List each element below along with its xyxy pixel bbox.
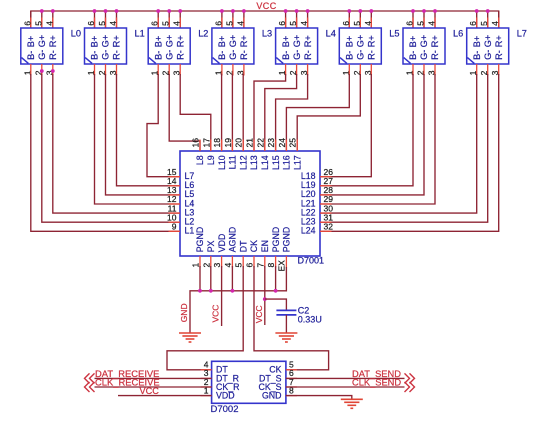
svg-text:L24: L24: [301, 226, 316, 236]
svg-text:R+: R+: [494, 35, 504, 47]
svg-text:22: 22: [255, 138, 265, 148]
connector L6 bottom pin stubs: [412, 64, 414, 76]
svg-text:G-: G-: [228, 50, 238, 60]
svg-text:R+: R+: [48, 35, 58, 47]
connector L7: [467, 28, 509, 64]
svg-text:R-: R-: [112, 50, 122, 60]
svg-text:PGND: PGND: [282, 227, 292, 252]
svg-text:B+: B+: [90, 36, 100, 48]
svg-text:B-: B-: [472, 51, 482, 60]
svg-text:B-: B-: [217, 51, 227, 60]
svg-text:G-: G-: [292, 50, 302, 60]
connector L2: [148, 28, 190, 64]
svg-text:5: 5: [479, 21, 489, 26]
svg-text:G+: G+: [292, 35, 302, 48]
off-sheet connector CLK_RECEIVE chevron: [85, 382, 95, 392]
svg-text:R+: R+: [175, 35, 185, 47]
svg-text:4: 4: [490, 21, 500, 26]
wire L7 pin2 to U1 pin31: [320, 74, 488, 222]
wire U2 pin6 to DAT_SEND: [286, 377, 405, 379]
svg-text:L1: L1: [135, 29, 145, 39]
wires U1 pins 1,2,4,8 to ground bus: [199, 266, 201, 291]
svg-text:L10: L10: [217, 155, 227, 170]
svg-text:3: 3: [212, 263, 222, 268]
svg-text:VDD: VDD: [217, 234, 227, 253]
U1 bottom pin stubs 1-8,EX: [199, 256, 201, 268]
svg-text:B-: B-: [26, 51, 36, 60]
svg-text:R-: R-: [239, 50, 249, 60]
op IC U1 D7001 body: [180, 151, 320, 256]
junction dots on VCC rail: [40, 9, 44, 13]
svg-text:R+: R+: [239, 35, 249, 47]
svg-text:CLK_SEND: CLK_SEND: [352, 377, 401, 387]
svg-text:32: 32: [324, 222, 334, 232]
svg-text:L0: L0: [71, 29, 81, 39]
svg-text:18: 18: [212, 138, 222, 148]
svg-text:L1: L1: [185, 226, 195, 236]
svg-text:EX: EX: [276, 260, 286, 272]
wire L6 pin1 to U1 pin27: [320, 74, 413, 186]
wire VCC tee to capacitor C2: [265, 299, 287, 310]
svg-text:CK: CK: [249, 240, 259, 252]
connector L0: [21, 28, 63, 64]
wires connector VCC pins to rail: [30, 11, 32, 28]
svg-text:G+: G+: [419, 35, 429, 48]
svg-text:5: 5: [234, 263, 244, 268]
ground symbol under C2: [275, 332, 297, 334]
U2 left pin stubs 1-4: [201, 369, 212, 371]
connector L5 bottom pin stubs: [348, 64, 350, 76]
wire L4 pin1 to U1 pin21: [254, 74, 286, 151]
power rail VCC: [31, 11, 499, 28]
off-sheet connector DAT_SEND chevron: [405, 373, 415, 383]
svg-text:VCC: VCC: [256, 1, 276, 11]
capacitor C2: [276, 309, 296, 311]
U2 right pin stubs 5-8: [286, 369, 297, 371]
wire U1 pin6 CK to U2 pin5: [254, 266, 329, 370]
wire L3 pin2 to U1 pin19: [231, 74, 233, 151]
svg-text:5: 5: [161, 21, 171, 26]
svg-text:R+: R+: [112, 35, 122, 47]
wire L7 pin3 to U1 pin32: [320, 74, 499, 231]
svg-text:B-: B-: [153, 51, 163, 60]
wire VCC to U2 pin1: [118, 395, 212, 397]
ground symbol under U1: [179, 332, 201, 334]
svg-text:EN: EN: [260, 240, 270, 252]
svg-text:4: 4: [108, 21, 118, 26]
svg-text:5: 5: [33, 21, 43, 26]
wire L5 pin3 to U1 pin26: [320, 74, 371, 177]
svg-text:D7001: D7001: [298, 255, 325, 265]
wire L2 pin1 to U1 pin15: [147, 74, 180, 177]
wire CLK_RECEIVE to U2 pin2: [95, 386, 212, 388]
wire U2 pin8 GND to ground: [286, 396, 352, 400]
svg-text:PGND: PGND: [195, 227, 205, 252]
wire L0 pin1 to U1 pin9: [31, 74, 180, 231]
svg-text:G-: G-: [419, 50, 429, 60]
svg-text:L13: L13: [249, 155, 259, 170]
wire L5 pin2 to U1 pin25: [297, 74, 360, 151]
svg-text:L16: L16: [282, 155, 292, 170]
svg-text:R-: R-: [367, 50, 377, 60]
svg-text:G+: G+: [164, 35, 174, 48]
svg-text:6: 6: [86, 21, 96, 26]
svg-text:19: 19: [223, 138, 233, 148]
svg-text:4: 4: [223, 263, 233, 268]
svg-text:G-: G-: [356, 50, 366, 60]
U1 left pin stubs 9-15: [169, 176, 181, 178]
svg-text:17: 17: [201, 138, 211, 148]
connector L3 bottom pin stubs: [221, 64, 223, 76]
svg-text:6: 6: [468, 21, 478, 26]
svg-text:16: 16: [191, 138, 201, 148]
svg-text:B+: B+: [153, 36, 163, 48]
wire U2 pin7 to CLK_SEND: [286, 386, 405, 388]
wire L3 pin1 to U1 pin18: [221, 74, 223, 151]
wire L7 pin1 to U1 pin30: [320, 74, 477, 213]
connector L2 bottom pin stubs: [157, 64, 159, 76]
svg-text:L7: L7: [517, 29, 527, 39]
IC U2 D7002 body: [212, 361, 286, 403]
svg-text:R-: R-: [175, 50, 185, 60]
junction dots on ground bus: [198, 289, 202, 293]
junction dot VCC/C2 tee: [263, 297, 267, 301]
connector L1: [85, 28, 127, 64]
svg-text:6: 6: [405, 21, 415, 26]
svg-text:VCC: VCC: [211, 305, 221, 323]
svg-text:VDD: VDD: [216, 391, 235, 401]
svg-text:6: 6: [245, 263, 255, 268]
svg-text:4: 4: [44, 21, 54, 26]
U1 right pin stubs 26-32: [320, 176, 332, 178]
svg-text:G+: G+: [101, 35, 111, 48]
svg-text:B+: B+: [217, 36, 227, 48]
wire L4 pin2 to U1 pin22: [265, 74, 297, 151]
svg-text:R-: R-: [303, 50, 313, 60]
wire L6 pin2 to U1 pin28: [320, 74, 424, 195]
svg-text:5: 5: [224, 21, 234, 26]
svg-text:G-: G-: [101, 50, 111, 60]
ground symbol under U2 pin8: [341, 398, 363, 400]
svg-text:6: 6: [150, 21, 160, 26]
svg-text:R+: R+: [303, 35, 313, 47]
svg-text:L2: L2: [198, 29, 208, 39]
svg-text:L3: L3: [262, 29, 272, 39]
svg-text:D7002: D7002: [211, 404, 239, 415]
junction dots below connector L0: [40, 69, 44, 73]
svg-text:VCC: VCC: [140, 386, 160, 396]
svg-text:4: 4: [363, 21, 373, 26]
off-sheet connector DAT_RECEIVE chevron: [85, 373, 95, 383]
wire L1 pin2 to U1 pin13: [106, 74, 181, 195]
svg-text:5: 5: [352, 21, 362, 26]
svg-text:4: 4: [235, 21, 245, 26]
wire L1 pin3 to U1 pin14: [117, 74, 181, 186]
connector L7 bottom pin stubs: [476, 64, 478, 76]
wire L2 pin2 to U1 pin16: [169, 74, 200, 151]
svg-text:21: 21: [245, 138, 255, 148]
svg-text:5: 5: [97, 21, 107, 26]
svg-text:B-: B-: [281, 51, 291, 60]
wire U1 pin7 EN to VCC: [264, 266, 266, 325]
svg-text:23: 23: [266, 138, 276, 148]
svg-text:B+: B+: [408, 36, 418, 48]
svg-text:L8: L8: [195, 155, 205, 165]
svg-text:DT: DT: [238, 240, 248, 252]
wire ground bus under U1: [190, 267, 286, 333]
svg-text:L14: L14: [260, 155, 270, 170]
svg-text:6: 6: [277, 21, 287, 26]
svg-text:L9: L9: [206, 155, 216, 165]
svg-text:VCC: VCC: [254, 305, 264, 323]
connector L4: [276, 28, 318, 64]
svg-text:8: 8: [266, 263, 276, 268]
svg-text:GND: GND: [179, 303, 189, 322]
wire L6 pin3 to U1 pin29: [320, 74, 435, 204]
svg-text:G-: G-: [483, 50, 493, 60]
wire U1 pin3 VDD to VCC: [221, 266, 223, 326]
connector L6: [403, 28, 445, 64]
svg-text:AGND: AGND: [228, 227, 238, 252]
svg-text:B-: B-: [345, 51, 355, 60]
wire C2 to ground: [285, 315, 287, 333]
svg-text:B+: B+: [345, 36, 355, 48]
svg-text:L11: L11: [228, 155, 238, 169]
svg-text:R+: R+: [430, 35, 440, 47]
wire L5 pin1 to U1 pin24: [286, 74, 349, 151]
wire L0 pin2 to U1 pin10: [42, 74, 180, 222]
svg-text:7: 7: [255, 263, 265, 268]
svg-text:5: 5: [288, 21, 298, 26]
connector L1 bottom pin stubs: [94, 64, 96, 76]
wire L2 pin3 to U1 pin17: [180, 74, 211, 151]
wire L1 pin1 to U1 pin12: [95, 74, 181, 204]
wire DAT_RECEIVE to U2 pin3: [95, 377, 212, 379]
connector L0 bottom pin stubs: [30, 64, 32, 76]
svg-text:G+: G+: [228, 35, 238, 48]
wire U1 pin5 DT to U2 pin4: [167, 266, 243, 370]
svg-text:L17: L17: [292, 155, 302, 170]
svg-text:B+: B+: [472, 36, 482, 48]
svg-text:R-: R-: [48, 50, 58, 60]
svg-text:4: 4: [427, 21, 437, 26]
svg-text:6: 6: [341, 21, 351, 26]
svg-text:B+: B+: [281, 36, 291, 48]
wire L0 pin3 to U1 pin11: [53, 74, 180, 213]
svg-text:6: 6: [22, 21, 32, 26]
off-sheet connector CLK_SEND chevron: [405, 382, 415, 392]
svg-text:0.33U: 0.33U: [298, 314, 322, 324]
svg-text:9: 9: [172, 222, 177, 232]
svg-text:L12: L12: [238, 155, 248, 170]
svg-text:L15: L15: [271, 155, 281, 170]
svg-text:20: 20: [234, 138, 244, 148]
svg-text:R+: R+: [367, 35, 377, 47]
svg-text:G+: G+: [37, 35, 47, 48]
svg-text:4: 4: [172, 21, 182, 26]
svg-text:B-: B-: [90, 51, 100, 60]
svg-text:5: 5: [416, 21, 426, 26]
svg-text:PGND: PGND: [271, 227, 281, 252]
svg-text:PX: PX: [206, 240, 216, 252]
wire L4 pin3 to U1 pin23: [276, 74, 308, 151]
wire L3 pin3 to U1 pin20: [242, 74, 244, 151]
svg-text:GND: GND: [262, 391, 282, 401]
svg-text:6: 6: [213, 21, 223, 26]
svg-text:24: 24: [277, 138, 287, 148]
svg-text:R-: R-: [430, 50, 440, 60]
svg-text:G+: G+: [483, 35, 493, 48]
svg-text:L5: L5: [389, 29, 399, 39]
svg-text:R-: R-: [494, 50, 504, 60]
svg-text:G-: G-: [37, 50, 47, 60]
svg-text:G+: G+: [356, 35, 366, 48]
svg-text:G-: G-: [164, 50, 174, 60]
svg-text:2: 2: [201, 263, 211, 268]
svg-text:L6: L6: [453, 29, 463, 39]
connector L5: [339, 28, 381, 64]
svg-text:25: 25: [288, 138, 298, 148]
svg-text:L4: L4: [326, 29, 336, 39]
connector L4 bottom pin stubs: [285, 64, 287, 76]
svg-text:1: 1: [191, 263, 201, 268]
svg-text:4: 4: [299, 21, 309, 26]
svg-text:B-: B-: [408, 51, 418, 60]
connector L3: [212, 28, 254, 64]
U1 top pin stubs 16-25: [199, 140, 201, 152]
svg-text:B+: B+: [26, 36, 36, 48]
